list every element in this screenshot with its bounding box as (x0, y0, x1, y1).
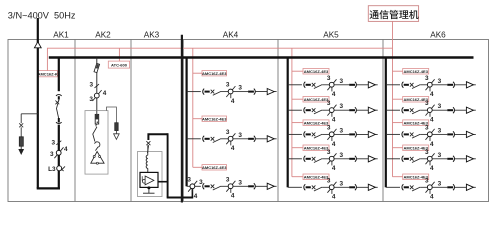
RS485 stub AK6-3 (393, 122, 403, 124)
svg-text:4: 4 (194, 193, 198, 200)
AK2 PT fuse (95, 114, 99, 124)
AK3 switch X (146, 141, 150, 153)
svg-text:AMC16Z-4E3: AMC16Z-4E3 (304, 174, 329, 179)
AK5 feeder branch 5: breaker QF + CT (288, 177, 378, 200)
divider AK5/AK6 (382, 40, 384, 202)
AK6 feeder branch 1: breaker QF + CT (386, 75, 476, 98)
AK2 temp sensor link wire (107, 107, 117, 123)
svg-text:3: 3 (89, 96, 93, 103)
AK3 feed wire L (148, 134, 167, 140)
divider AK1/AK2 (74, 40, 76, 202)
AK4 feeder branch 1 (187, 82, 277, 105)
svg-text:AMC16Z-4E3: AMC16Z-4E3 (202, 71, 227, 76)
svg-text:AK5: AK5 (323, 30, 339, 39)
RS485 stub AK6-2 (393, 98, 403, 100)
AK4 APF coupling CT (187, 177, 203, 201)
AK3 cubicle box (138, 152, 163, 197)
AK5 feeder branch 4: breaker QF + CT (288, 149, 378, 172)
AK1 meter CT L3 (48, 166, 65, 173)
device label box AK4-2 AMC16Z (202, 116, 227, 121)
RS485 stub AK5-5 (292, 176, 303, 178)
device label box AK6-4 AMC16Z (403, 145, 429, 151)
AK2 PT winding hook (95, 142, 100, 151)
RS485 stub AK4-2 (193, 118, 202, 120)
svg-text:3/N~400V 50Hz: 3/N~400V 50Hz (8, 11, 76, 21)
svg-text:AMC16Z-4E3: AMC16Z-4E3 (202, 116, 227, 121)
svg-text:3: 3 (50, 151, 54, 158)
AK2 temp sensor (115, 123, 119, 131)
svg-text:ATC-600: ATC-600 (111, 63, 128, 68)
svg-text:AK3: AK3 (144, 30, 160, 39)
section divider thick (181, 35, 183, 203)
device label box AK2 ATC (108, 61, 129, 68)
red drop to comm manager (392, 21, 394, 176)
divider AK4/AK5 (277, 40, 279, 202)
svg-text:4: 4 (64, 146, 68, 153)
SPD switch X (19, 123, 23, 127)
communication manager box 通信管理机 (368, 6, 418, 22)
device label box AK5-2 AMC16Z (303, 97, 329, 103)
AK5 feeder branch 3: breaker QF + CT (288, 124, 378, 147)
main busbar (49, 56, 474, 58)
svg-text:AK1: AK1 (53, 30, 69, 39)
AK2 PT cubicle box (85, 111, 108, 175)
AK2 fuse tilted (94, 63, 100, 72)
svg-text:AMC16Z-4E3: AMC16Z-4E3 (304, 97, 329, 102)
AK3 APF converter (140, 172, 158, 193)
AK3 output wiring to AK4 bus (158, 181, 168, 183)
RS485 stub AK5-3 (292, 122, 303, 124)
svg-text:AMC16Z-4E3: AMC16Z-4E3 (202, 165, 227, 170)
SPD tap (21, 113, 38, 115)
outer frame (8, 40, 489, 202)
metering riser AK1 (58, 125, 60, 190)
red drop AK4 (192, 48, 194, 167)
divider AK2/AK3 (130, 40, 132, 202)
AK6 feeder branch 2: breaker QF + CT (386, 100, 476, 123)
AK6 feeder branch 5: breaker QF + CT (386, 177, 476, 200)
device label box AK5-4 AMC16Z (303, 145, 329, 151)
AK1 CT 1 (50, 146, 68, 158)
RS485 red bus (47, 48, 392, 70)
svg-text:AK6: AK6 (430, 30, 446, 39)
incoming supply line (37, 18, 39, 188)
device label box AK6-2 AMC16Z (403, 97, 429, 103)
RS485 stub AK6-1 (393, 70, 403, 72)
svg-text:AMC16Z-4E3: AMC16Z-4E3 (304, 69, 329, 74)
svg-text:3: 3 (52, 139, 56, 146)
device label box AK4-3 AMC16Z (202, 165, 227, 170)
device label box AK5-1 AMC16Z (303, 69, 329, 75)
svg-text:3: 3 (90, 82, 94, 89)
AK6 feeder branch 4: breaker QF + CT (386, 149, 476, 172)
AK5 feeder branch 1: breaker QF + CT (288, 75, 378, 98)
svg-text:3: 3 (199, 179, 203, 186)
RS485 stub AK5-2 (292, 98, 303, 100)
RS485 stub AK4-1 (193, 72, 202, 74)
device label box AK6-1 AMC16Z (403, 69, 429, 75)
AK1 3-phase slash (52, 139, 62, 146)
svg-text:AMC16Z-4E3: AMC16Z-4E3 (304, 145, 329, 150)
AK4 feeder branch 2 (187, 129, 277, 152)
AK2 3-phase slash (90, 82, 99, 89)
RS485 stub AK6-5 (393, 176, 403, 178)
svg-text:L3: L3 (48, 166, 56, 173)
AK4 busbar (186, 58, 188, 187)
device label box AK6-3 AMC16Z (403, 120, 429, 126)
svg-text:AMC16Z-K: AMC16Z-K (38, 72, 58, 77)
svg-text:AMC16Z-4E3: AMC16Z-4E3 (403, 69, 428, 74)
AK2 PT delta winding (91, 152, 104, 165)
divider AK3/AK4 thin (182, 40, 184, 202)
device label box AK1 AMC16Z (38, 71, 58, 77)
svg-text:AMC16Z-4E3: AMC16Z-4E3 (304, 120, 329, 125)
device label box AK5-5 AMC16Z (303, 174, 329, 180)
RS485 stub AK4-3 (193, 166, 202, 168)
AK6 busbar (385, 58, 387, 188)
AK2 CT (89, 90, 106, 103)
AK6 feeder branch 3: breaker QF + CT (386, 124, 476, 147)
svg-text:4: 4 (103, 90, 107, 97)
device label box AK5-3 AMC16Z (303, 120, 329, 126)
red drop AK5 (291, 48, 293, 177)
svg-text:AK4: AK4 (223, 30, 239, 39)
RS485 stub AK5-1 (292, 70, 303, 72)
red drop AK2 (118, 48, 120, 61)
AK3 reactor coil (146, 155, 148, 168)
AK5 busbar (287, 58, 289, 188)
bottom loop AK1 (37, 187, 60, 189)
AK2 PT switch (95, 124, 98, 127)
AK5 feeder branch 2: breaker QF + CT (288, 100, 378, 123)
svg-text:3: 3 (187, 177, 191, 184)
AK4 feeder branch 3 (187, 176, 277, 199)
device label box AK4-1 AMC16Z (202, 71, 227, 76)
SPD earth arrow (18, 149, 24, 155)
SPD arrester body (19, 137, 23, 146)
AK2 feeder wire (96, 58, 98, 111)
RS485 stub AK6-4 (393, 147, 403, 149)
device label box AK6-5 AMC16Z (403, 174, 429, 180)
AK1 breaker: drawout contacts + X (55, 95, 61, 124)
RS485 stub AK5-4 (292, 147, 303, 149)
svg-text:AK2: AK2 (95, 30, 111, 39)
incoming direction arrow (34, 42, 41, 48)
